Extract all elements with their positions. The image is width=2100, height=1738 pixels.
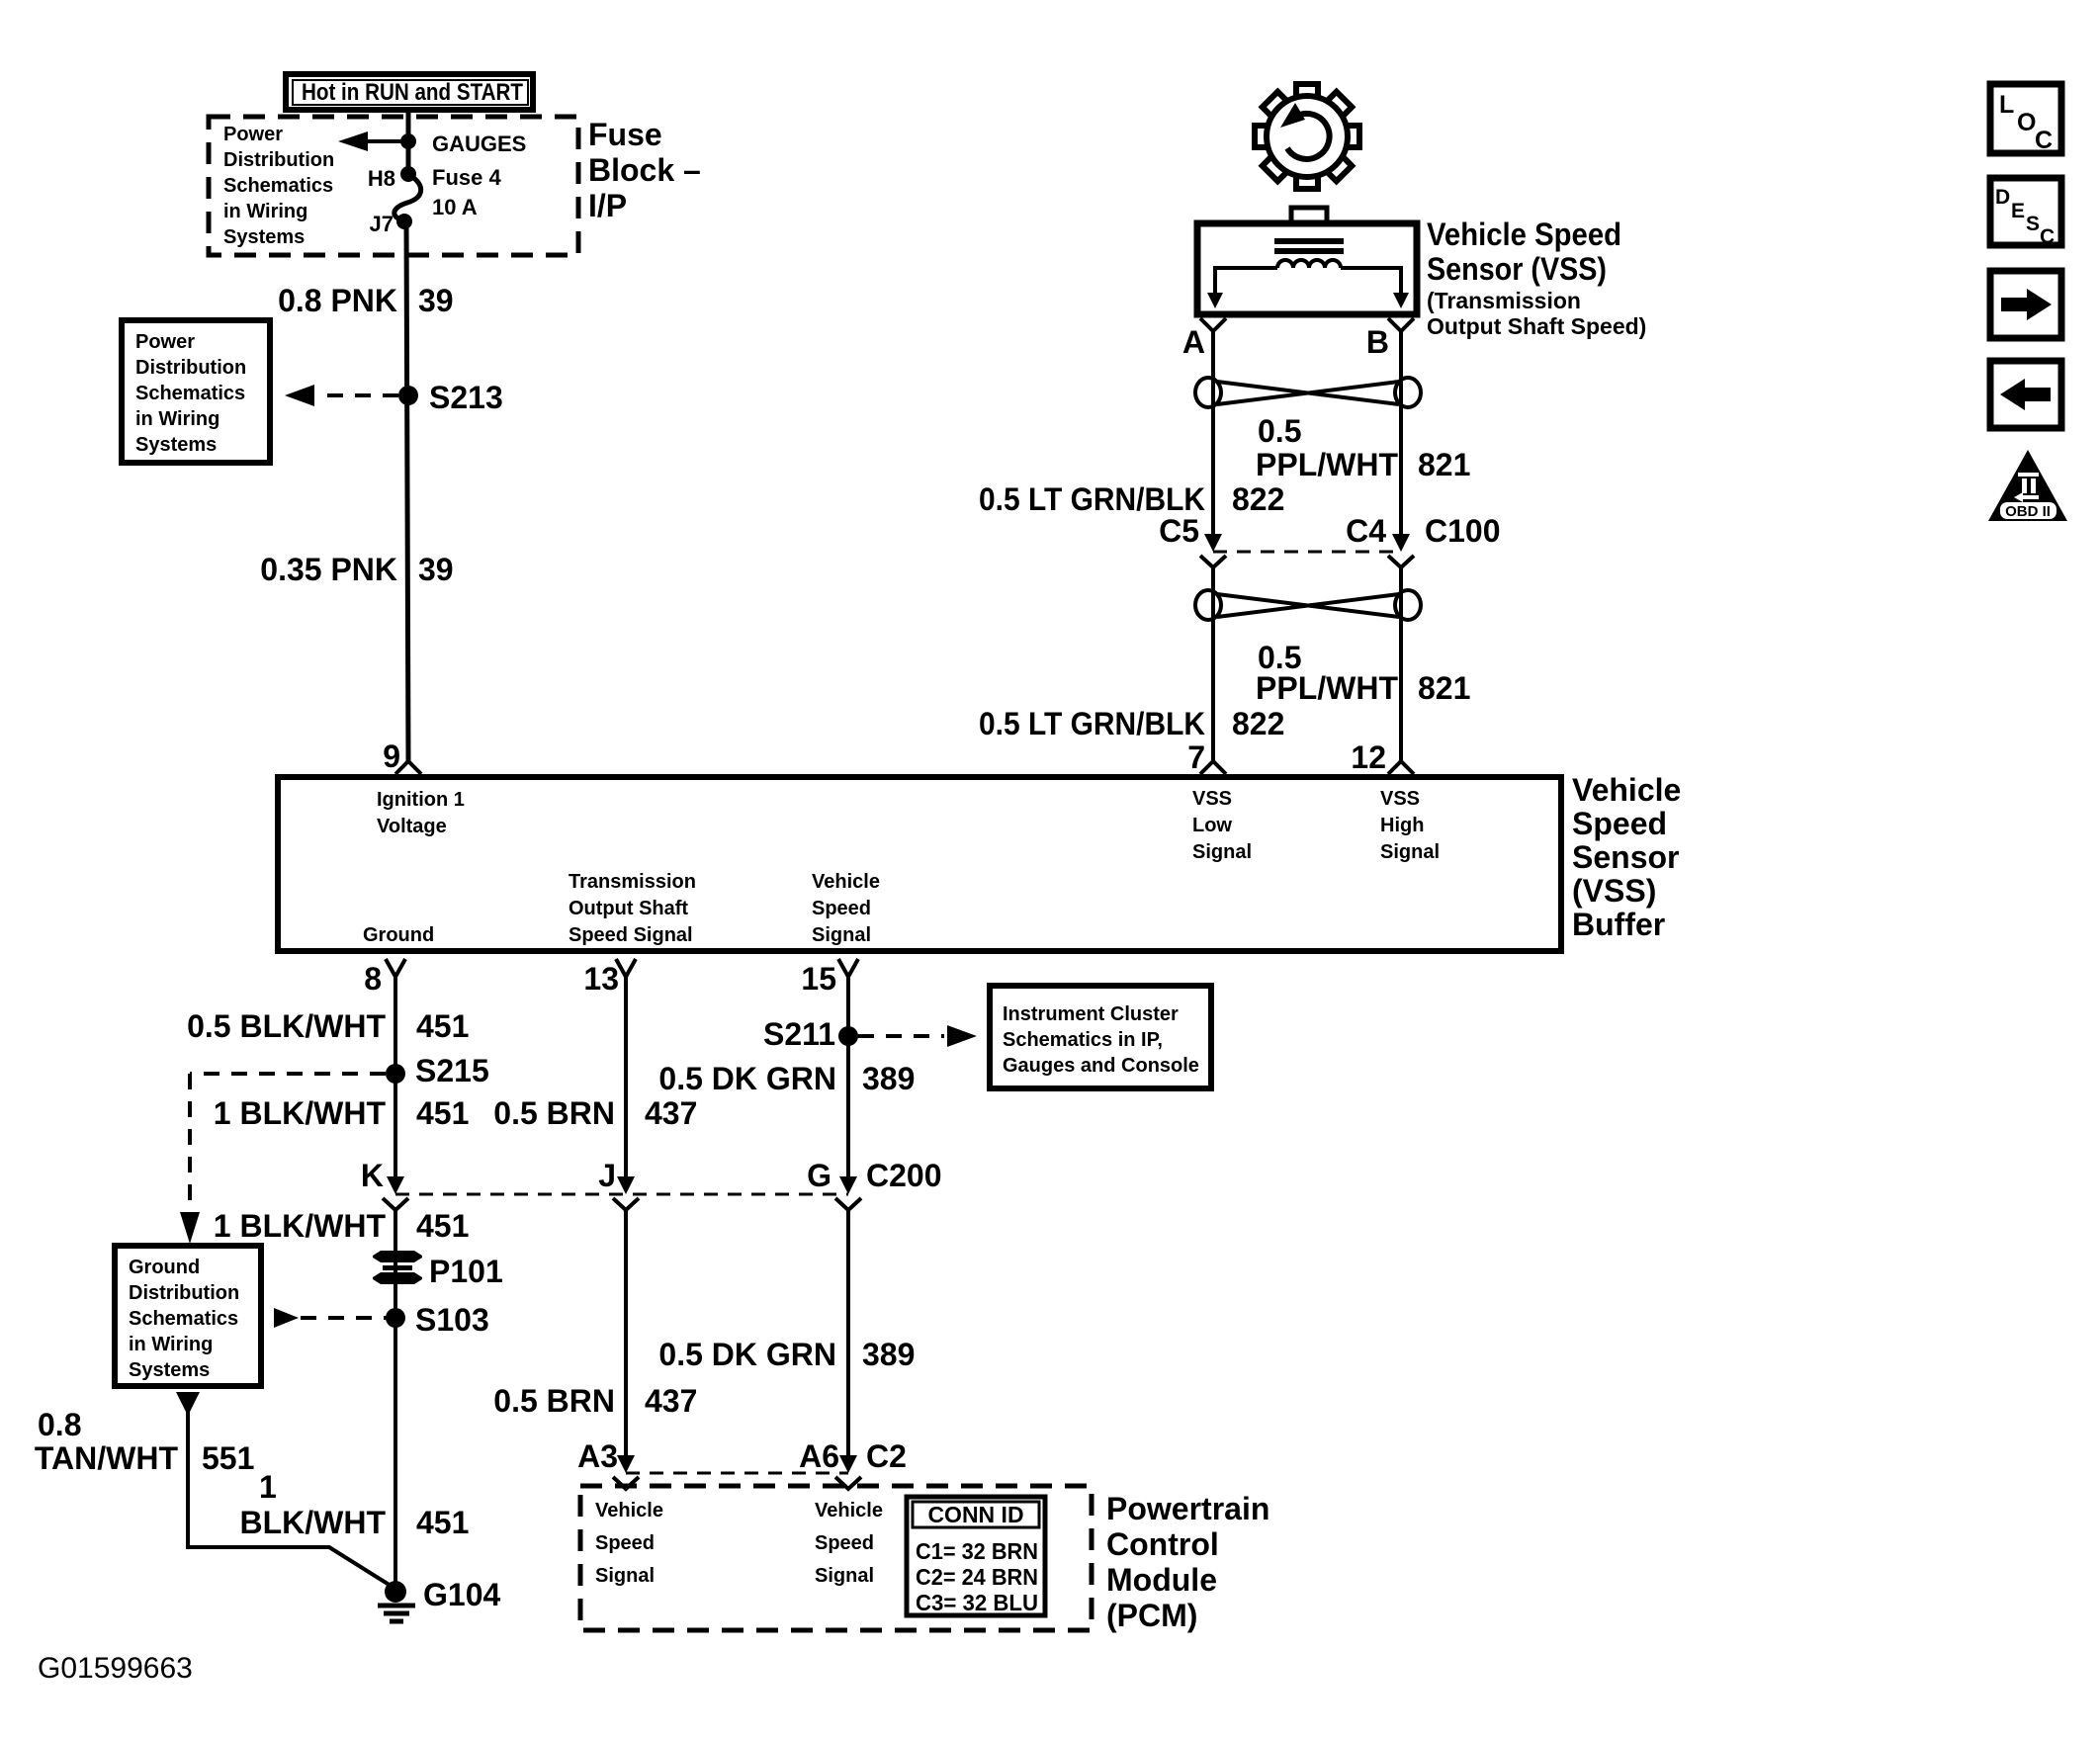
dashed reference line S215 to ground distribution box [190, 1074, 386, 1216]
svg-text:I/P: I/P [588, 188, 627, 223]
power distribution schematics note (inside fuse box) [223, 124, 334, 248]
svg-text:D: D [1995, 186, 2010, 209]
svg-text:Sensor: Sensor [1572, 839, 1679, 875]
svg-text:389: 389 [862, 1337, 915, 1372]
svg-text:OBD II: OBD II [2005, 503, 2051, 520]
svg-text:Ignition 1: Ignition 1 [377, 789, 465, 811]
svg-text:C5: C5 [1159, 513, 1199, 549]
svg-text:Distribution: Distribution [129, 1282, 239, 1304]
svg-text:821: 821 [1418, 447, 1470, 482]
sidebar DESC icon [1990, 178, 2061, 248]
wire label 1 BLK/WHT 451 [214, 1095, 470, 1131]
svg-text:0.5 BLK/WHT: 0.5 BLK/WHT [187, 1008, 386, 1044]
wire label 0.8 TAN/WHT 551 [35, 1407, 255, 1476]
svg-text:in Wiring: in Wiring [135, 408, 219, 430]
connector C100 labels [1159, 513, 1500, 549]
svg-text:39: 39 [418, 552, 454, 587]
svg-text:S213: S213 [429, 380, 503, 415]
svg-text:Fuse 4: Fuse 4 [432, 165, 501, 190]
PCM title [1106, 1491, 1269, 1633]
svg-text:L: L [1999, 91, 2014, 119]
svg-text:High: High [1380, 815, 1424, 836]
splice S213 [398, 386, 418, 405]
sidebar next-page arrow icon [1990, 271, 2061, 338]
Hot in RUN and START label box [286, 74, 533, 110]
sidebar LOC icon [1990, 84, 2061, 154]
wire labels upper pair [979, 413, 1470, 517]
wire label 0.5 BLK/WHT 451 [187, 1008, 469, 1044]
svg-text:C1= 32 BRN: C1= 32 BRN [916, 1538, 1038, 1564]
svg-text:0.5 LT GRN/BLK: 0.5 LT GRN/BLK [979, 481, 1205, 517]
C100 connector dashed line [1213, 551, 1401, 554]
svg-text:Instrument Cluster: Instrument Cluster [1003, 1003, 1179, 1025]
wire label 0.5 BRN 437 (lower) [493, 1383, 697, 1419]
svg-text:E: E [2011, 200, 2025, 222]
svg-text:13: 13 [583, 961, 619, 997]
svg-text:C100: C100 [1425, 513, 1501, 549]
C100 female forks [1200, 556, 1226, 567]
VSS sensor box [1197, 223, 1417, 314]
grommet P101 [373, 1251, 503, 1289]
svg-text:J7: J7 [370, 212, 394, 236]
svg-text:0.5 LT GRN/BLK: 0.5 LT GRN/BLK [979, 706, 1205, 741]
VSS sensor pickup tab [1291, 208, 1327, 223]
svg-text:C2: C2 [866, 1438, 907, 1474]
svg-text:0.5 DK GRN: 0.5 DK GRN [658, 1337, 836, 1372]
svg-text:G: G [807, 1158, 831, 1193]
splice S215 [386, 1064, 405, 1084]
svg-text:Schematics: Schematics [135, 383, 245, 404]
svg-text:A6: A6 [799, 1438, 839, 1474]
fuse block label [588, 117, 701, 223]
rotation arrow inside gear [1287, 114, 1330, 159]
svg-text:P101: P101 [429, 1254, 503, 1289]
svg-text:0.5: 0.5 [1258, 413, 1301, 449]
svg-text:TAN/WHT: TAN/WHT [35, 1440, 179, 1476]
wire label 0.5 BRN 437 [493, 1095, 697, 1131]
PCM connector dashed line [626, 1472, 848, 1475]
svg-text:0.5 BRN: 0.5 BRN [493, 1095, 615, 1131]
svg-text:437: 437 [645, 1383, 697, 1419]
svg-text:Control: Control [1106, 1526, 1219, 1562]
svg-text:B: B [1366, 324, 1389, 360]
svg-text:J: J [598, 1158, 616, 1193]
svg-text:Speed: Speed [815, 1532, 874, 1554]
svg-text:Distribution: Distribution [223, 149, 334, 171]
wire: G to PCM A6 (0.5 DK GRN 389) [846, 1210, 850, 1459]
dashed reference arrow to instrument cluster [858, 1034, 944, 1038]
wire: buffer pin 8 ground to K [394, 977, 397, 1180]
svg-text:VSS: VSS [1380, 788, 1420, 810]
svg-text:GAUGES: GAUGES [432, 131, 526, 156]
wire label 1 BLK/WHT 451 (to G104) [239, 1469, 469, 1540]
svg-text:389: 389 [862, 1061, 915, 1096]
svg-text:Signal: Signal [595, 1565, 655, 1587]
svg-text:C2= 24 BRN: C2= 24 BRN [916, 1564, 1038, 1590]
svg-text:0.35 PNK: 0.35 PNK [260, 552, 397, 587]
VSS title [1427, 217, 1646, 339]
svg-text:A: A [1182, 324, 1205, 360]
wire: VSS B to C100 (0.5 PPL/WHT 821) [1399, 331, 1403, 536]
buffer pin names [363, 788, 1440, 946]
svg-text:Systems: Systems [223, 226, 305, 248]
coil leads with arrows [1215, 268, 1401, 297]
svg-text:in Wiring: in Wiring [223, 201, 307, 222]
svg-text:G01599663: G01599663 [38, 1652, 193, 1685]
svg-text:451: 451 [416, 1008, 469, 1044]
svg-text:Systems: Systems [135, 434, 217, 456]
svg-text:Powertrain: Powertrain [1106, 1491, 1269, 1526]
wire: buffer pin 13 to J (0.5 BRN 437) [624, 977, 628, 1180]
svg-text:Vehicle: Vehicle [812, 871, 880, 893]
wire label 1 BLK/WHT 451 (below C200) [214, 1208, 470, 1244]
wire: C100 to buffer pin 12 [1399, 567, 1403, 761]
svg-text:Schematics in IP,: Schematics in IP, [1003, 1029, 1163, 1051]
svg-text:437: 437 [645, 1095, 697, 1131]
VSS buffer box [278, 777, 1561, 951]
svg-text:Ground: Ground [363, 924, 434, 946]
splice S103 [386, 1308, 405, 1328]
fuse F4 (curved fuse symbol) [394, 174, 421, 221]
dashed reference arrow to power distribution box [285, 385, 398, 406]
wire: J to PCM A3 (0.5 BRN 437) [624, 1210, 628, 1459]
svg-text:(VSS): (VSS) [1572, 873, 1656, 909]
svg-text:S103: S103 [415, 1302, 489, 1338]
svg-text:O: O [2017, 109, 2036, 136]
svg-text:C4: C4 [1346, 513, 1386, 549]
svg-text:Power: Power [223, 124, 283, 145]
svg-text:0.5 DK GRN: 0.5 DK GRN [658, 1061, 836, 1096]
svg-text:Speed: Speed [1572, 806, 1667, 841]
sidebar previous-page arrow icon [1990, 361, 2061, 428]
svg-text:Voltage: Voltage [377, 816, 447, 837]
svg-text:821: 821 [1418, 670, 1470, 706]
svg-text:Block –: Block – [588, 152, 701, 188]
node H8 [400, 166, 416, 182]
C200 male arrows [387, 1176, 404, 1194]
svg-text:Speed: Speed [812, 898, 871, 919]
svg-text:VSS: VSS [1192, 788, 1232, 810]
svg-text:G104: G104 [423, 1577, 500, 1612]
wire label 0.8 PNK 39 [278, 283, 454, 318]
C200 connector dashed line [395, 1193, 848, 1196]
twisted pair symbol (upper) [1195, 378, 1421, 407]
svg-text:Signal: Signal [812, 924, 871, 946]
svg-text:S211: S211 [763, 1016, 835, 1052]
svg-text:S: S [2026, 213, 2040, 235]
ground G104 [378, 1577, 500, 1621]
svg-text:H8: H8 [368, 166, 395, 191]
node J7 [396, 214, 412, 229]
svg-text:Output Shaft Speed): Output Shaft Speed) [1427, 313, 1646, 339]
wire: ground distribution to G104 (0.8 TAN/WHT 551) [176, 1392, 200, 1416]
svg-text:Schematics: Schematics [129, 1308, 238, 1330]
splice S211 [838, 1026, 858, 1046]
svg-text:Buffer: Buffer [1572, 907, 1665, 942]
buffer box title [1572, 772, 1681, 942]
fuse value label [432, 131, 526, 219]
svg-text:Vehicle: Vehicle [815, 1500, 883, 1521]
wire label 0.5 DK GRN 389 [658, 1061, 915, 1096]
svg-text:451: 451 [416, 1208, 469, 1244]
power distribution schematics box [122, 320, 270, 463]
wire: arrow to power distribution (left) [338, 131, 408, 151]
svg-text:1: 1 [259, 1469, 277, 1505]
ground distribution schematics box [115, 1246, 261, 1386]
sidebar OBD II icon [1988, 450, 2067, 521]
fuse block dashed box [209, 117, 578, 255]
svg-text:(PCM): (PCM) [1106, 1598, 1197, 1633]
svg-text:C3= 32 BLU: C3= 32 BLU [916, 1590, 1038, 1615]
twisted pair symbol (lower) [1195, 590, 1421, 620]
svg-text:in Wiring: in Wiring [129, 1334, 213, 1355]
svg-text:12: 12 [1351, 739, 1386, 775]
wire label 0.35 PNK 39 [260, 552, 453, 587]
svg-text:Power: Power [135, 331, 195, 353]
svg-text:Vehicle: Vehicle [595, 1500, 663, 1521]
svg-text:451: 451 [416, 1505, 469, 1540]
svg-text:Signal: Signal [815, 1565, 874, 1587]
svg-text:Speed: Speed [595, 1532, 655, 1554]
node: junction to power distribution arrow [400, 133, 416, 149]
svg-text:451: 451 [416, 1095, 469, 1131]
svg-text:Output Shaft: Output Shaft [569, 898, 688, 919]
svg-text:Signal: Signal [1192, 841, 1252, 863]
wire: VSS A to C100 (0.5 LT GRN/BLK 822) [1211, 331, 1215, 536]
svg-text:CONN ID: CONN ID [927, 1502, 1023, 1527]
svg-text:C: C [2040, 225, 2055, 248]
wire: buffer pin 15 to G (0.5 DK GRN 389) [846, 977, 850, 1180]
svg-text:C: C [2035, 127, 2053, 154]
wire: fuse block feed [406, 111, 411, 174]
svg-text:Systems: Systems [129, 1359, 210, 1381]
pickup coil [1277, 260, 1341, 268]
svg-text:PPL/WHT: PPL/WHT [1256, 670, 1398, 706]
wire label 0.5 DK GRN 389 (lower) [658, 1337, 915, 1372]
svg-text:10 A: 10 A [432, 195, 478, 219]
svg-text:Schematics: Schematics [223, 175, 333, 197]
PCM female forks [613, 1477, 639, 1489]
PCM pin labels [595, 1500, 883, 1587]
svg-text:1 BLK/WHT: 1 BLK/WHT [214, 1095, 387, 1131]
wire: K to G104 (1 BLK/WHT 451) [394, 1210, 397, 1588]
svg-text:BLK/WHT: BLK/WHT [239, 1505, 386, 1540]
svg-text:Vehicle Speed: Vehicle Speed [1427, 217, 1621, 252]
CONN ID table [907, 1497, 1045, 1615]
dashed reference from ground distribution box to S103 [274, 1308, 299, 1328]
PCM dashed box [580, 1486, 1092, 1630]
svg-text:Module: Module [1106, 1562, 1217, 1598]
svg-text:S215: S215 [415, 1053, 489, 1088]
svg-text:1 BLK/WHT: 1 BLK/WHT [214, 1208, 387, 1244]
svg-text:551: 551 [202, 1440, 254, 1476]
svg-text:8: 8 [364, 961, 382, 997]
svg-text:822: 822 [1232, 481, 1284, 517]
svg-text:Vehicle: Vehicle [1572, 772, 1681, 808]
svg-text:Low: Low [1192, 815, 1232, 836]
wire labels lower pair [979, 640, 1470, 741]
svg-text:K: K [361, 1158, 384, 1193]
svg-text:Fuse: Fuse [588, 117, 662, 152]
svg-text:C200: C200 [866, 1158, 942, 1193]
pin 9 connector fork [395, 761, 421, 774]
reluctor gear wheel [1255, 84, 1359, 189]
svg-text:Distribution: Distribution [135, 357, 246, 379]
svg-text:Transmission: Transmission [569, 871, 696, 893]
svg-text:Gauges and Console: Gauges and Console [1003, 1055, 1199, 1077]
svg-text:Signal: Signal [1380, 841, 1440, 863]
connector C200 labels [361, 1158, 942, 1193]
svg-text:15: 15 [801, 961, 836, 997]
svg-text:PPL/WHT: PPL/WHT [1256, 447, 1398, 482]
wire: C100 to buffer pin 7 [1211, 567, 1215, 761]
svg-text:39: 39 [418, 283, 454, 318]
svg-text:Speed Signal: Speed Signal [569, 924, 693, 946]
svg-text:822: 822 [1232, 706, 1284, 741]
wire: 0.8 PNK 39 segment [406, 221, 408, 761]
C200 female forks [383, 1198, 408, 1210]
C100 male arrows [1204, 534, 1222, 552]
svg-text:Sensor (VSS): Sensor (VSS) [1427, 251, 1607, 287]
svg-text:0.5 BRN: 0.5 BRN [493, 1383, 615, 1419]
svg-text:A3: A3 [577, 1438, 618, 1474]
instrument cluster schematics box [990, 986, 1211, 1088]
svg-text:Ground: Ground [129, 1257, 200, 1278]
svg-text:Hot in RUN and START: Hot in RUN and START [302, 79, 523, 106]
magnet bars [1274, 238, 1344, 244]
svg-text:0.8: 0.8 [38, 1407, 81, 1442]
svg-text:(Transmission: (Transmission [1427, 288, 1581, 313]
svg-text:9: 9 [383, 739, 400, 774]
svg-text:0.8 PNK: 0.8 PNK [278, 283, 397, 318]
